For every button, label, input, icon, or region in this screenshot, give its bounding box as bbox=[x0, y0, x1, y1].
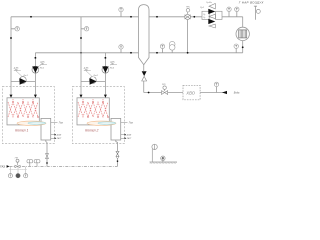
svg-text:Г НАР ВОЗДУХ: Г НАР ВОЗДУХ bbox=[239, 0, 265, 4]
svg-text:ГФУ: ГФУ bbox=[15, 156, 19, 159]
svg-text:Ру-1: Ру-1 bbox=[200, 7, 204, 9]
svg-text:ГАЗ: ГАЗ bbox=[0, 164, 5, 168]
svg-text:Ру: Ру bbox=[203, 14, 205, 16]
svg-text:Ру: Ру bbox=[203, 17, 205, 19]
svg-text:Гр-Фл: Гр-Фл bbox=[206, 1, 212, 4]
svg-text:Котел 2: Котел 2 bbox=[85, 129, 98, 133]
svg-text:Вода: Вода bbox=[234, 91, 240, 94]
svg-text:РУЧ: РУЧ bbox=[162, 84, 166, 86]
svg-text:ХВО: ХВО bbox=[185, 91, 195, 96]
svg-text:РУЧ: РУЧ bbox=[186, 6, 190, 8]
